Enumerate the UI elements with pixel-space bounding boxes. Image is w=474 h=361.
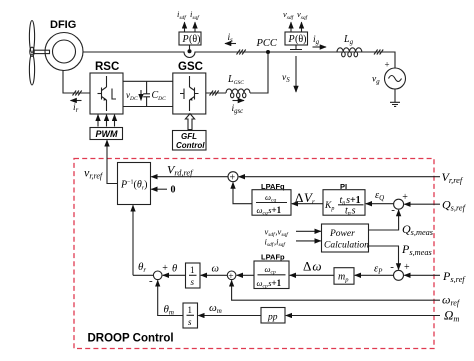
svg-text:-: - (390, 261, 394, 273)
svg-text:1: 1 (188, 305, 193, 315)
arrow i_s (225, 43, 236, 45)
block integrator 1/s (186, 263, 201, 288)
svg-text:ωm: ωm (209, 302, 222, 315)
svg-text:igsc: igsc (232, 104, 244, 115)
wire P(theta)2 tap (290, 45, 302, 50)
svg-text:LGSC: LGSC (227, 74, 244, 86)
svg-text:θm: θm (164, 304, 174, 317)
svg-text:ir: ir (73, 103, 79, 114)
svg-text:GSC: GSC (178, 61, 203, 73)
svg-text:Qs,meas: Qs,meas (402, 222, 433, 237)
DROOP dashed border (74, 159, 434, 349)
svg-text:P: P (288, 34, 295, 45)
block pp (261, 308, 285, 324)
svg-text:1: 1 (190, 265, 195, 275)
measurement block P(theta) stator currents (179, 32, 201, 45)
wire omega_ref to sum5 (232, 280, 440, 300)
three-phase slash on rotor wire (73, 91, 82, 96)
svg-text:DFIG: DFIG (50, 19, 76, 31)
three-phase slash on stator bus (237, 50, 246, 55)
IGBT inside GSC (180, 76, 199, 111)
block LPAFq (252, 190, 291, 217)
wire PI to LPAFq (292, 203, 323, 205)
block GFL Control (173, 131, 207, 151)
block PWM (90, 128, 123, 140)
capacitor C_DC (143, 81, 150, 106)
svg-text:isdf ,isqf: isdf ,isqf (265, 237, 287, 249)
GSC output wire to PCC (206, 54, 268, 93)
summing junction sum1 (228, 172, 238, 184)
IGBT inside RSC (98, 76, 117, 111)
wire Q_s,ref input (404, 203, 440, 205)
three-phase slash on GSC output (210, 91, 219, 96)
svg-text:CDC: CDC (152, 90, 167, 102)
svg-text:ωref: ωref (442, 293, 461, 308)
wire Omega_m input (286, 315, 440, 317)
svg-text:εP: εP (374, 264, 383, 276)
svg-text:(θ): (θ) (189, 34, 200, 45)
arrow theta_r into P^-1 (132, 205, 134, 275)
svg-text:θ: θ (172, 264, 177, 275)
svg-text:tns+1: tns+1 (340, 195, 361, 207)
svg-text:mp: mp (338, 272, 349, 284)
wire Q_s,meas to sum2 (369, 210, 399, 230)
svg-text:Vr,ref: Vr,ref (442, 170, 464, 185)
wire V_r,ref input (239, 176, 440, 178)
arrow i input into Power Calc (296, 240, 321, 242)
svg-text:is: is (228, 33, 234, 44)
wire sum2 to PI (366, 203, 394, 205)
turbine shaft (34, 50, 50, 53)
wire P_s,ref input (404, 274, 440, 276)
summing junction sum3 (390, 261, 410, 281)
svg-text:P: P (182, 34, 189, 45)
wire sum3 to m_p (355, 274, 394, 276)
svg-text:vS: vS (282, 73, 290, 84)
wind turbine blades (29, 21, 34, 86)
svg-text:DROOP Control: DROOP Control (88, 333, 174, 345)
wire v_r,ref to PWM (107, 140, 118, 183)
svg-text:θr: θr (138, 261, 146, 274)
svg-text:Power: Power (329, 229, 355, 239)
node PCC (266, 50, 270, 54)
svg-text:+: + (162, 263, 168, 274)
svg-text:Calculation: Calculation (324, 241, 369, 251)
svg-text:vsqf: vsqf (297, 9, 309, 21)
svg-text:PWM: PWM (96, 129, 118, 139)
svg-text:Ps,ref: Ps,ref (442, 269, 466, 284)
svg-text:(θ): (θ) (295, 34, 306, 45)
svg-text:Ωm: Ωm (444, 308, 459, 324)
arrow i_g (313, 46, 327, 48)
svg-text:Qs,ref: Qs,ref (442, 198, 467, 213)
svg-text:vr,ref: vr,ref (84, 166, 104, 181)
svg-text:+: + (230, 173, 236, 184)
svg-text:pp: pp (267, 313, 278, 323)
grid voltage source v_g (385, 68, 406, 89)
svg-text:εQ: εQ (375, 190, 384, 202)
svg-text:P−1(θr): P−1(θr) (120, 180, 147, 192)
svg-text:+: + (402, 192, 408, 203)
wire P(theta)1 down lead (189, 45, 191, 50)
arrows out of P(theta)2 (290, 22, 292, 32)
svg-text:isdf: isdf (177, 9, 187, 21)
generator DFIG machine (45, 33, 83, 71)
wire 1/s to sum4 (163, 274, 186, 276)
block PI (323, 190, 365, 217)
summing junction sum4 (149, 263, 168, 287)
svg-text:ωcps+1: ωcps+1 (257, 278, 282, 290)
ground (390, 89, 400, 106)
wire theta_m to sum4 (158, 280, 183, 315)
block integrator 1/s second (183, 303, 198, 328)
arrow i_r (71, 100, 82, 102)
svg-text:vsdf: vsdf (283, 9, 295, 21)
summing junction sum2 (391, 192, 408, 216)
svg-text:Kp: Kp (324, 201, 334, 212)
wire P_s,meas to sum3 (369, 246, 399, 270)
summing junction sum5 (227, 271, 236, 282)
svg-text:s: s (188, 317, 192, 327)
block P^-1(theta_r) (118, 163, 151, 205)
wire 0 input (151, 188, 167, 190)
svg-text:+: + (385, 60, 390, 70)
block arrow GFL to GSC (185, 114, 194, 130)
block LPAFp (254, 261, 289, 290)
svg-text:ig: ig (313, 35, 320, 46)
wire pp to 1/s (198, 315, 261, 317)
wire LPAFq to sum1 (233, 183, 252, 204)
svg-text:vg: vg (372, 75, 380, 86)
stator wire to PCC with hop (83, 52, 391, 58)
arrows PWM to RSC (97, 115, 99, 127)
inductor L_GSC (226, 89, 250, 98)
wire to grid source (391, 52, 395, 68)
rotor wire to RSC (63, 71, 90, 94)
svg-text:isqf: isqf (190, 9, 200, 21)
svg-text:+: + (228, 272, 233, 282)
wire LPAFp to sum5 (237, 274, 254, 276)
arrow i_gsc (233, 100, 245, 102)
svg-text:Vrd,ref: Vrd,ref (167, 163, 194, 178)
svg-text:LPAFp: LPAFp (261, 253, 285, 262)
converter RSC (90, 73, 123, 114)
svg-text:RSC: RSC (95, 61, 119, 73)
wire sum1 to P^-1 (151, 176, 228, 178)
wire sum5 to 1/s (201, 274, 228, 276)
block m_p (334, 268, 354, 285)
measurement block P(theta) stator voltages (285, 32, 308, 45)
arrow v_DC (140, 90, 142, 100)
wire m_p to LPAFp (290, 274, 334, 276)
svg-text:ωcq: ωcq (265, 192, 276, 204)
svg-text:+: + (404, 262, 410, 273)
svg-text:Δω: Δω (303, 259, 322, 274)
arrow v input into Power Calc (296, 230, 321, 232)
svg-text:Lg: Lg (343, 34, 354, 46)
inductor L_g (337, 48, 362, 57)
svg-text:tns: tns (345, 206, 356, 218)
wire sum4 to theta_r corner (133, 274, 153, 276)
svg-text:GFL: GFL (181, 132, 197, 141)
node dot under P(theta)1 (188, 49, 192, 53)
arrows out of P(theta)1 (184, 22, 186, 32)
svg-text:-: - (391, 204, 395, 216)
converter GSC (173, 73, 206, 114)
svg-text:ω: ω (212, 264, 219, 275)
svg-text:Control: Control (176, 141, 205, 150)
block Power Calculation (322, 224, 370, 252)
svg-text:-: - (149, 275, 153, 287)
DC link rails (123, 81, 173, 106)
svg-text:Ps,meas: Ps,meas (401, 242, 432, 257)
arrow v_s (295, 56, 297, 92)
svg-text:PCC: PCC (256, 38, 278, 49)
svg-text:ωcqs+1: ωcqs+1 (257, 205, 282, 217)
svg-text:s: s (191, 277, 195, 287)
three-phase slash after L_g (374, 50, 383, 55)
svg-text:ωcp: ωcp (265, 264, 276, 276)
svg-text:0: 0 (171, 185, 176, 196)
svg-text:vDC: vDC (126, 90, 138, 102)
